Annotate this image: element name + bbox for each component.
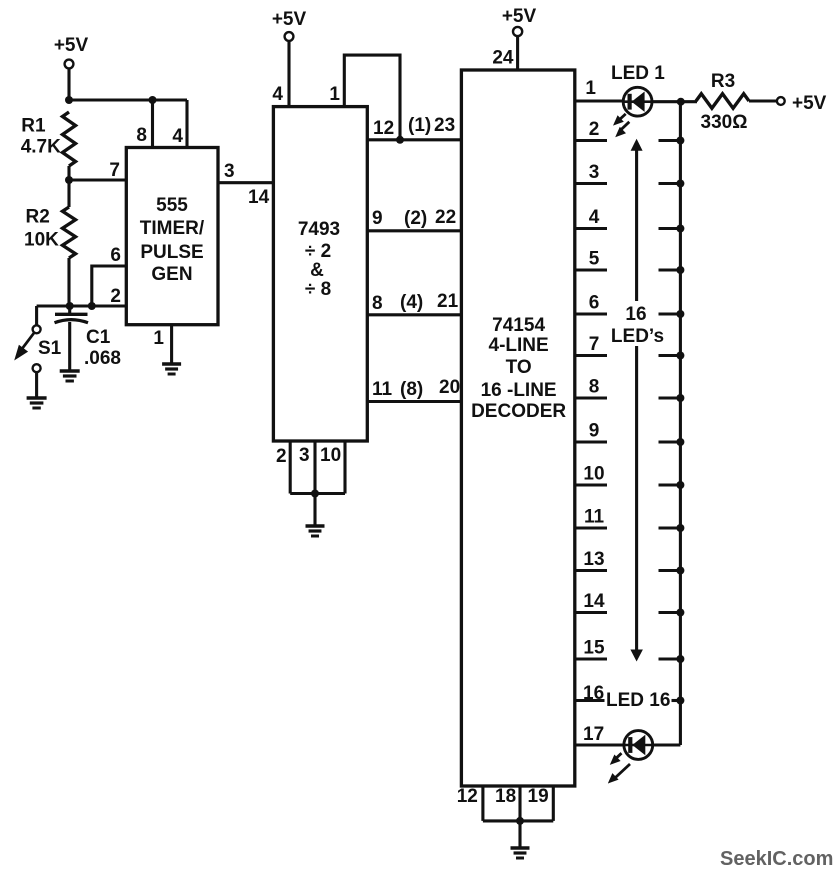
switch S1 lever arrowhead xyxy=(14,345,28,361)
svg-text:4.7K: 4.7K xyxy=(21,137,61,158)
wire bus stub row 10 xyxy=(659,483,681,486)
wire 555 pin 6 branch xyxy=(92,266,127,306)
svg-text:74154: 74154 xyxy=(492,315,545,336)
svg-text:LED 1: LED 1 xyxy=(611,63,665,84)
svg-text:555: 555 xyxy=(156,195,188,216)
wire to ground below 7493 xyxy=(313,494,316,526)
wire 74154 pin 15 output stub xyxy=(575,657,607,660)
svg-text:20: 20 xyxy=(439,377,460,398)
svg-text:TIMER/: TIMER/ xyxy=(140,218,205,239)
svg-text:18: 18 xyxy=(495,786,516,807)
wire 7493 pin 8 to 74154 pin 21 xyxy=(367,313,461,316)
node junction bus row 7 xyxy=(676,352,684,360)
svg-text:LED’s: LED’s xyxy=(611,326,664,347)
svg-text:11: 11 xyxy=(584,507,605,528)
svg-text:R2: R2 xyxy=(26,207,50,228)
wire bus stub row 3 xyxy=(659,182,681,185)
wire to 555 pin 8 xyxy=(151,100,154,148)
svg-text:21: 21 xyxy=(437,291,459,312)
node junction R2/C1 on pin2 wire xyxy=(66,302,74,310)
svg-text:10: 10 xyxy=(320,445,341,466)
wire 74154 pin 11 output stub xyxy=(575,526,607,529)
annotation arrow 16 LEDs upper segment xyxy=(635,150,638,301)
wire to ground below 74154 xyxy=(518,821,521,847)
resistor R1 xyxy=(63,112,76,166)
wire LED16 stub to bus xyxy=(672,699,681,702)
IC U2 7493 divider box xyxy=(273,107,367,441)
LED 16 diode xyxy=(624,731,653,760)
wire +5V to 7493 top xyxy=(287,41,290,107)
svg-text:9: 9 xyxy=(372,208,383,229)
svg-text:S1: S1 xyxy=(38,338,62,359)
wire 74154 pin 1 output to LED 1 xyxy=(575,99,623,102)
resistor R2 xyxy=(67,180,70,207)
node junction bus row 10 xyxy=(676,481,684,489)
svg-text:330Ω: 330Ω xyxy=(701,112,748,133)
svg-text:9: 9 xyxy=(589,421,600,442)
ground below 7493 xyxy=(306,524,325,528)
svg-text:14: 14 xyxy=(583,591,605,612)
svg-text:DECODER: DECODER xyxy=(471,401,566,422)
wire 74154 pin 16 output stub xyxy=(575,699,605,702)
svg-text:16 -LINE: 16 -LINE xyxy=(481,380,557,401)
svg-text:15: 15 xyxy=(583,638,605,659)
svg-text:÷ 8: ÷ 8 xyxy=(305,279,331,300)
ground below 74154 xyxy=(511,846,530,850)
wire 555 pin 2 horizontal xyxy=(37,304,127,307)
switch S1 lever arm xyxy=(22,333,34,349)
svg-text:2: 2 xyxy=(589,119,600,140)
wire 7493 pin 12 to 74154 pin 23 xyxy=(367,138,461,141)
svg-text:6: 6 xyxy=(110,245,121,266)
node junction R1/R2/pin7 xyxy=(65,176,73,184)
wire 74154 pin 2 output stub xyxy=(575,139,607,142)
switch S1 wire from pin2 line xyxy=(35,306,38,325)
wire S1 to ground xyxy=(35,372,38,397)
wire bus stub row 11 xyxy=(659,526,681,529)
svg-text:6: 6 xyxy=(589,293,600,314)
wire 555 pin 3 output to 7493 pin 14 xyxy=(218,181,273,184)
svg-text:÷ 2: ÷ 2 xyxy=(305,241,331,262)
svg-text:1: 1 xyxy=(329,84,340,105)
wire 74154 pin 5 output stub xyxy=(575,268,607,271)
wire 7493 pin 11 to 74154 pin 20 xyxy=(367,400,461,403)
wire 555 pin 1 to ground xyxy=(170,325,173,363)
node junction bus row 5 xyxy=(676,266,684,274)
wire bus stub row 8 xyxy=(659,396,681,399)
wire +5V rail to 555 pins 8 and 4 xyxy=(69,98,187,101)
svg-text:+5V: +5V xyxy=(792,93,827,114)
svg-text:SeekIC.com: SeekIC.com xyxy=(720,848,833,870)
wire LED1 to R3 node xyxy=(652,100,697,103)
wire 74154 pin 18 ground strap xyxy=(518,786,521,821)
op IC U1 555 timer box xyxy=(126,148,218,325)
wire R2 bottom to pin2 node xyxy=(67,258,70,306)
wire 74154 pin 6 output stub xyxy=(575,312,607,315)
node junction ground strap 74154 xyxy=(516,817,524,825)
node junction pin1 loop on pin12 wire xyxy=(396,136,404,144)
wire 74154 pin 12 ground strap xyxy=(481,786,484,821)
node junction bus row 15 xyxy=(676,655,684,663)
wire to 555 pin 4 xyxy=(185,100,188,148)
wire 74154 pin 10 output stub xyxy=(575,483,607,486)
svg-text:22: 22 xyxy=(435,207,456,228)
LED 1 emission arrow a xyxy=(619,114,626,121)
svg-text:24: 24 xyxy=(492,48,514,69)
svg-text:12: 12 xyxy=(373,118,394,139)
ground below S1 xyxy=(27,396,47,400)
svg-text:TO: TO xyxy=(506,357,532,378)
svg-text:4: 4 xyxy=(272,84,283,105)
svg-text:13: 13 xyxy=(583,549,604,570)
svg-text:GEN: GEN xyxy=(151,264,192,285)
wire 7493 pin 2 ground strap xyxy=(289,441,292,494)
svg-text:7: 7 xyxy=(109,160,120,181)
switch S1 top contact xyxy=(33,325,41,333)
svg-text:+5V: +5V xyxy=(502,6,537,27)
wire R1 bottom to node xyxy=(67,166,70,180)
svg-text:10K: 10K xyxy=(24,230,59,251)
wire LED16 to bus bottom xyxy=(652,743,680,746)
wire 7493 pin 1 feedback loop to pin 12 line xyxy=(344,55,400,140)
wire ground bracket under 7493 xyxy=(290,492,345,495)
svg-text:C1: C1 xyxy=(86,327,111,348)
wire +5V to 74154 top xyxy=(516,36,519,70)
svg-text:4: 4 xyxy=(172,126,183,147)
wire 7493 pin 3 ground strap xyxy=(313,441,316,494)
switch S1 bottom contact xyxy=(33,364,41,372)
wire bus stub row 15 xyxy=(659,657,681,660)
svg-text:19: 19 xyxy=(528,786,549,807)
LED 16 emission arrow a xyxy=(616,753,622,759)
wire 74154 pin 14 output stub xyxy=(575,611,607,614)
node junction bus row 3 xyxy=(676,180,684,188)
wire R3 to +5V terminal xyxy=(749,99,777,102)
svg-text:4: 4 xyxy=(589,207,600,228)
node junction +5V rail / R1 xyxy=(65,96,73,104)
wire C1 to ground xyxy=(68,322,71,370)
svg-text:+5V: +5V xyxy=(54,35,89,56)
node junction bus row 14 xyxy=(676,609,684,617)
svg-text:.068: .068 xyxy=(84,348,121,369)
LED 1 emission arrow b xyxy=(622,122,630,129)
node junction LED bus top xyxy=(677,98,685,106)
LED 16 emission arrow b xyxy=(615,764,631,778)
node junction bus row 4 xyxy=(676,225,684,233)
svg-text:(2): (2) xyxy=(404,208,427,229)
svg-text:1: 1 xyxy=(585,78,596,99)
ground below C1 xyxy=(60,369,80,373)
svg-text:3: 3 xyxy=(589,162,600,183)
svg-text:1: 1 xyxy=(153,328,164,349)
svg-text:8: 8 xyxy=(136,125,147,146)
wire 74154 pin 9 output stub xyxy=(575,440,607,443)
wire 74154 pin 7 output stub xyxy=(575,354,607,357)
svg-text:&: & xyxy=(310,260,324,281)
node junction pin 8 branch xyxy=(149,96,157,104)
svg-text:PULSE: PULSE xyxy=(140,242,203,263)
capacitor C1 curved bottom plate xyxy=(55,320,89,323)
node junction ground strap xyxy=(311,490,319,498)
capacitor C1 top plate xyxy=(68,306,71,314)
wire 74154 pin 17 output to LED 16 xyxy=(575,743,623,746)
svg-text:3: 3 xyxy=(224,161,235,182)
wire bus stub row 13 xyxy=(659,569,681,572)
svg-text:2: 2 xyxy=(110,286,121,307)
node junction pin6/pin2 xyxy=(88,302,96,310)
wire bus stub row 4 xyxy=(659,227,681,230)
wire bus stub row 9 xyxy=(659,440,681,443)
wire bus stub row 6 xyxy=(659,312,681,315)
svg-text:14: 14 xyxy=(248,187,270,208)
wire 74154 pin 19 ground strap xyxy=(552,786,555,821)
svg-text:8: 8 xyxy=(589,377,600,398)
svg-text:16: 16 xyxy=(625,304,646,325)
resistor R3 xyxy=(696,94,749,108)
svg-text:3: 3 xyxy=(299,445,310,466)
wire node to 555 pin 7 xyxy=(69,178,126,181)
svg-text:17: 17 xyxy=(583,724,604,745)
wire 7493 pin 10 ground strap xyxy=(343,441,346,494)
node junction bus row 2 xyxy=(676,137,684,145)
wire bus stub row 2 xyxy=(659,139,681,142)
svg-text:(8): (8) xyxy=(400,379,423,400)
wire 74154 pin 8 output stub xyxy=(575,396,607,399)
wire bus stub row 5 xyxy=(659,268,681,271)
svg-text:LED 16: LED 16 xyxy=(606,690,670,711)
LED bus vertical wire xyxy=(679,102,682,745)
svg-text:4-LINE: 4-LINE xyxy=(489,335,549,356)
svg-text:23: 23 xyxy=(434,115,455,136)
wire 74154 pin 13 output stub xyxy=(575,569,607,572)
svg-text:11: 11 xyxy=(372,379,393,400)
svg-text:+5V: +5V xyxy=(272,9,307,30)
wire bus stub row 14 xyxy=(659,611,681,614)
wire 7493 pin 9 to 74154 pin 22 xyxy=(367,229,461,232)
IC U3 74154 decoder box xyxy=(461,70,574,786)
wire bus stub row 7 xyxy=(659,354,681,357)
wire ground bracket under 74154 xyxy=(483,819,553,822)
node junction bus row 13 xyxy=(676,567,684,575)
ground below 555 pin 1 xyxy=(162,362,181,366)
node junction bus row 8 xyxy=(676,394,684,402)
svg-text:(4): (4) xyxy=(400,292,423,313)
node junction bus row 11 xyxy=(676,524,684,532)
node junction bus row 6 xyxy=(676,310,684,318)
svg-text:12: 12 xyxy=(457,786,478,807)
wire +5V down to R1 top node xyxy=(67,68,70,100)
node junction bus row 16 xyxy=(676,697,684,705)
node junction bus row 9 xyxy=(676,438,684,446)
annotation arrow 16 LEDs lower segment xyxy=(635,346,638,651)
svg-text:8: 8 xyxy=(372,293,383,314)
svg-text:16: 16 xyxy=(583,683,604,704)
svg-text:10: 10 xyxy=(583,464,604,485)
LED 1 diode xyxy=(623,87,652,116)
svg-text:7: 7 xyxy=(589,334,600,355)
power +5V terminal (far right) xyxy=(777,97,785,105)
svg-text:2: 2 xyxy=(276,446,287,467)
svg-text:(1): (1) xyxy=(408,115,431,136)
svg-text:5: 5 xyxy=(589,249,600,270)
wire 74154 pin 4 output stub xyxy=(575,227,607,230)
wire 74154 pin 3 output stub xyxy=(575,182,607,185)
svg-text:R1: R1 xyxy=(21,116,46,137)
svg-text:R3: R3 xyxy=(711,71,735,92)
svg-text:7493: 7493 xyxy=(298,219,340,240)
